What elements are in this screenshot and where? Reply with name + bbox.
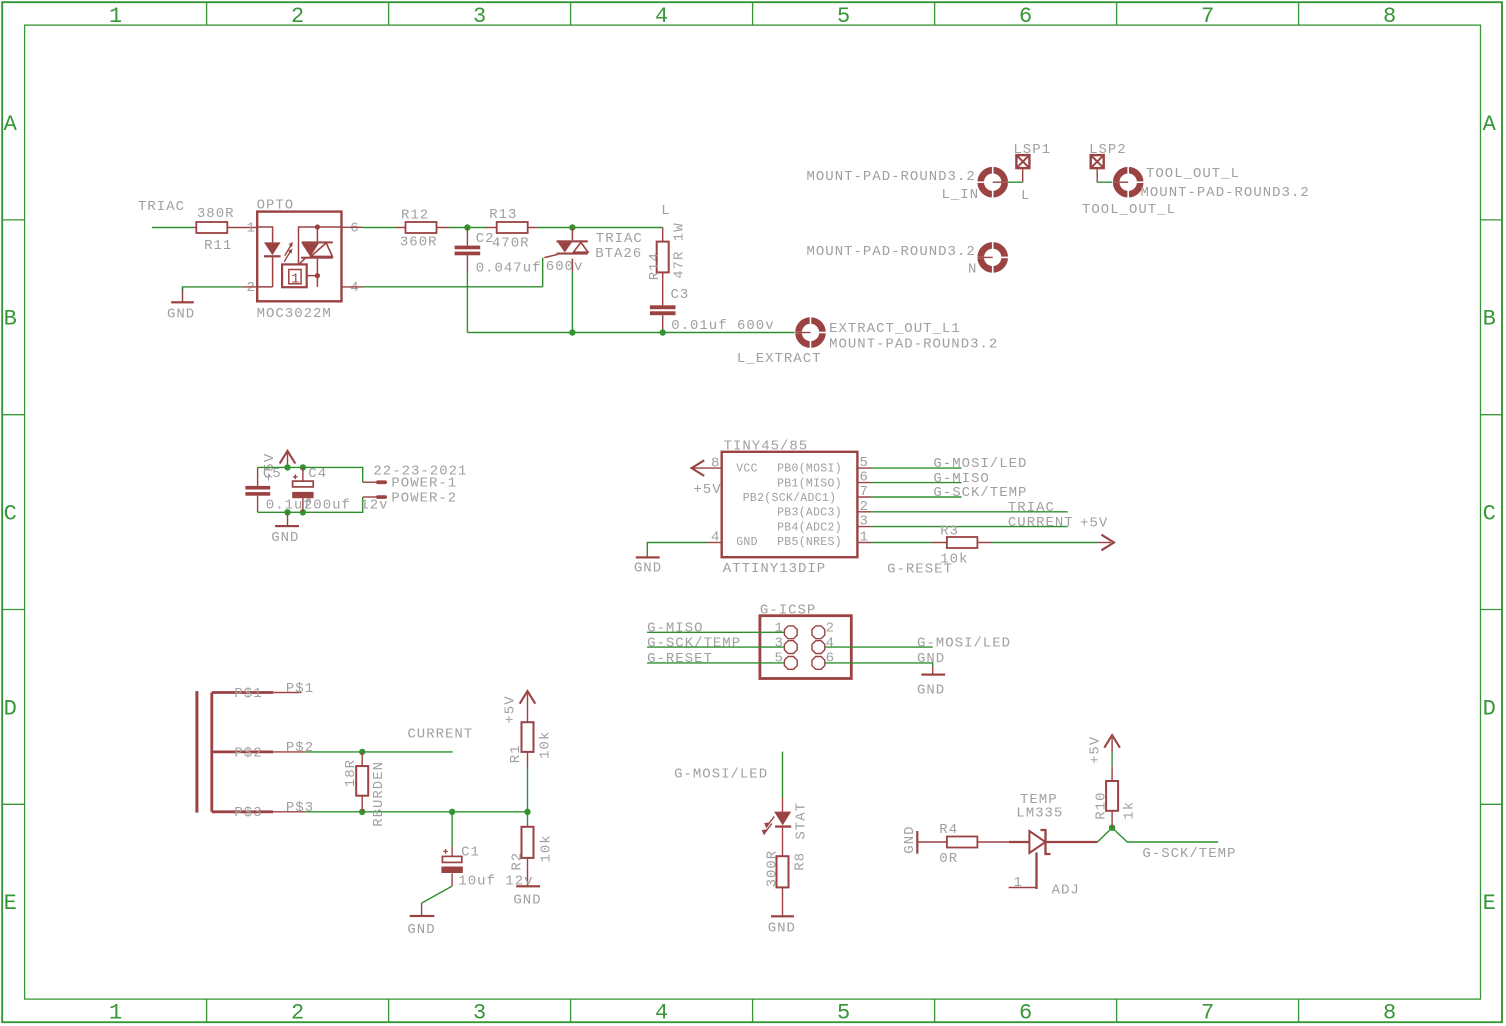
svg-text:POWER-2: POWER-2 — [391, 491, 457, 507]
wire net G-MOSI/LED (pin5) — [872, 467, 962, 469]
svg-text:10k: 10k — [538, 731, 554, 759]
svg-text:E: E — [4, 891, 17, 916]
wire power top rail — [258, 467, 363, 482]
wire net TRIAC (pin2) — [872, 511, 1068, 513]
junction node rail/triac — [569, 329, 575, 335]
pad L_EXTRACT (mount pad) — [795, 317, 827, 349]
pad TOOL_OUT (mount pad) — [1112, 166, 1144, 198]
svg-text:3: 3 — [473, 4, 486, 29]
resistor R8 — [777, 856, 789, 916]
resistor R2 — [522, 827, 534, 886]
svg-text:3: 3 — [775, 635, 784, 651]
wire GND to R4 — [918, 841, 947, 843]
resistor R10 — [1106, 767, 1118, 828]
svg-text:GND: GND — [513, 893, 541, 909]
svg-text:GND: GND — [167, 307, 195, 323]
svg-text:R13: R13 — [489, 207, 517, 223]
transformer core bar — [195, 691, 198, 813]
svg-text:D: D — [1483, 696, 1496, 721]
svg-text:47R 1W: 47R 1W — [672, 222, 688, 278]
svg-text:GND: GND — [768, 921, 796, 937]
supply +5V arrow (R10) — [1104, 735, 1120, 751]
transformer bracket and pins — [212, 693, 273, 812]
svg-text:C1: C1 — [461, 845, 480, 861]
svg-text:2: 2 — [291, 1001, 304, 1026]
wire R12 to node — [449, 227, 486, 229]
capacitor C1 (polarized) — [441, 847, 462, 887]
wire net CURRENT (pin3) — [872, 526, 1068, 528]
svg-text:LM335: LM335 — [1016, 806, 1063, 822]
wire opto pin6 out — [342, 226, 363, 228]
svg-text:4: 4 — [655, 4, 668, 29]
junction node triac top — [569, 224, 575, 230]
svg-text:GND: GND — [917, 683, 945, 699]
svg-text:7: 7 — [1201, 4, 1214, 29]
U1 pin 4 wire to GND — [707, 542, 722, 544]
svg-text:GND: GND — [634, 561, 662, 577]
resistor R13 — [486, 222, 538, 233]
svg-text:VCC: VCC — [736, 463, 758, 476]
svg-text:G-SCK/TEMP: G-SCK/TEMP — [933, 485, 1027, 501]
LM335 ADJ pin — [1035, 853, 1037, 890]
svg-text:6: 6 — [1019, 4, 1032, 29]
svg-text:PB4(ADC2): PB4(ADC2) — [777, 521, 842, 534]
wire LM335 to node (diagonal) — [1098, 828, 1113, 842]
svg-text:P$3: P$3 — [234, 805, 262, 821]
frame row ticks right — [1481, 220, 1503, 804]
capacitor C2 — [455, 228, 481, 273]
svg-text:A: A — [4, 112, 18, 137]
svg-text:E: E — [1483, 891, 1496, 916]
svg-text:1k: 1k — [1121, 801, 1137, 820]
svg-text:GND: GND — [917, 651, 945, 667]
IC U1 ATTINY13 box — [722, 452, 858, 557]
resistor R4 — [947, 837, 1009, 848]
svg-text:G-ICSP: G-ICSP — [760, 603, 816, 619]
wire net G-SCK/TEMP (pin7) — [872, 496, 962, 498]
svg-text:PB3(ADC3): PB3(ADC3) — [777, 507, 842, 520]
connector pin POWER-2 — [363, 495, 387, 499]
svg-text:PB5(NRES): PB5(NRES) — [777, 536, 842, 549]
ground GND (U1) — [636, 556, 660, 558]
svg-text:TRIAC: TRIAC — [1008, 500, 1055, 516]
svg-text:GND: GND — [902, 825, 918, 853]
frame column ticks top — [207, 2, 1299, 25]
ground GND (opto pin2) — [171, 288, 194, 303]
wire L_IN pad to LSP1 — [1008, 181, 1023, 183]
resistor R12 — [396, 222, 449, 233]
svg-text:8: 8 — [711, 455, 720, 471]
wire net GND (P$3 row) — [305, 811, 527, 813]
svg-text:7: 7 — [1201, 1001, 1214, 1026]
svg-text:CURRENT: CURRENT — [407, 726, 473, 742]
svg-text:2: 2 — [826, 621, 835, 637]
svg-text:B: B — [4, 307, 17, 332]
junction node C1 — [449, 809, 455, 815]
svg-text:TRIAC: TRIAC — [138, 199, 185, 215]
svg-text:1: 1 — [247, 221, 256, 237]
capacitor C3 — [650, 305, 676, 332]
pad N (mount pad) — [977, 242, 1009, 274]
svg-text:MOUNT-PAD-ROUND3.2: MOUNT-PAD-ROUND3.2 — [807, 244, 976, 260]
LED STAT — [774, 798, 791, 857]
svg-text:P$1: P$1 — [286, 681, 314, 697]
svg-text:4: 4 — [350, 280, 359, 296]
svg-text:G-SCK/TEMP: G-SCK/TEMP — [1142, 846, 1236, 862]
resistor RBURDEN — [356, 752, 368, 812]
svg-text:300R: 300R — [764, 850, 780, 888]
svg-text:PB1(MISO): PB1(MISO) — [777, 477, 842, 490]
solder jumper LSP1 — [1016, 155, 1029, 182]
svg-text:G-MOSI/LED: G-MOSI/LED — [917, 635, 1011, 651]
wire net G-RESET to ICSP pin5 — [647, 662, 784, 664]
svg-text:200uf 12v: 200uf 12v — [304, 497, 389, 513]
svg-text:G-MOSI/LED: G-MOSI/LED — [933, 456, 1027, 472]
svg-text:2: 2 — [291, 4, 304, 29]
svg-text:360R: 360R — [400, 234, 438, 250]
svg-text:L_IN: L_IN — [942, 187, 980, 203]
junction node R12/C2/R13 — [464, 224, 470, 230]
OPTO light arrows — [284, 242, 293, 262]
svg-text:OPTO: OPTO — [257, 198, 295, 214]
svg-text:470R: 470R — [492, 236, 530, 252]
wire power bottom rail — [258, 497, 363, 512]
ground GND (R2) — [516, 885, 540, 887]
svg-text:600v: 600v — [546, 259, 584, 275]
frame row ticks left — [2, 220, 24, 804]
svg-text:C2: C2 — [476, 231, 495, 247]
svg-text:3: 3 — [473, 1001, 486, 1026]
resistor R3 — [932, 537, 992, 548]
svg-text:P$2: P$2 — [286, 740, 314, 756]
svg-text:ATTINY13DIP: ATTINY13DIP — [723, 561, 826, 577]
svg-text:PB0(MOSI): PB0(MOSI) — [777, 463, 842, 476]
svg-text:C5: C5 — [263, 466, 282, 482]
svg-text:GND: GND — [407, 922, 435, 938]
svg-text:+5V: +5V — [1087, 736, 1103, 764]
svg-text:D: D — [4, 696, 17, 721]
svg-text:EXTRACT_OUT_L1: EXTRACT_OUT_L1 — [829, 321, 961, 337]
svg-text:10uf 12v: 10uf 12v — [458, 874, 533, 890]
U1 pin texts — [736, 463, 842, 550]
supply +5V arrow (VCC pin 8) — [692, 460, 722, 476]
svg-text:R14: R14 — [647, 252, 663, 280]
wire R10 to +5V — [1111, 752, 1113, 767]
svg-text:TOOL_OUT_L: TOOL_OUT_L — [1082, 202, 1176, 218]
svg-text:0.01uf 600v: 0.01uf 600v — [671, 318, 774, 334]
svg-text:TRIAC: TRIAC — [596, 231, 643, 247]
svg-text:1: 1 — [1014, 875, 1023, 891]
resistor R11 — [194, 222, 257, 233]
junction node GND/C5 — [284, 509, 290, 515]
OPTO detector chip box with 1 — [282, 264, 307, 287]
svg-text:6: 6 — [826, 651, 835, 667]
svg-text:1: 1 — [109, 4, 122, 29]
ground GND (R8) — [771, 915, 794, 917]
op-to coupler U OPTO MOC3022M box — [257, 212, 341, 302]
svg-text:B: B — [1483, 307, 1496, 332]
junction node R10/LM335 — [1109, 825, 1115, 831]
svg-text:R1: R1 — [508, 744, 524, 763]
svg-text:C4: C4 — [308, 466, 327, 482]
wire R1 to node — [527, 767, 529, 811]
wire net CURRENT (P$2) — [305, 751, 453, 753]
svg-text:R3: R3 — [940, 524, 959, 540]
svg-text:MOUNT-PAD-ROUND3.2: MOUNT-PAD-ROUND3.2 — [807, 169, 976, 185]
svg-text:R11: R11 — [204, 238, 232, 254]
svg-text:TINY45/85: TINY45/85 — [724, 439, 809, 455]
LED light arrows — [762, 817, 775, 836]
pin stub P$2 — [273, 751, 305, 753]
supply +5V arrow (power input) — [280, 451, 296, 468]
wire net TRIAC to R11 — [152, 227, 194, 229]
svg-text:P$2: P$2 — [234, 745, 262, 761]
ground GND (power) — [275, 512, 299, 527]
diode U2 LM335 — [1009, 830, 1098, 854]
svg-text:P$3: P$3 — [286, 800, 314, 816]
svg-text:+5V: +5V — [693, 482, 721, 498]
svg-text:2: 2 — [247, 280, 256, 296]
wire opto pin2 to GND — [242, 286, 257, 288]
wire C1 to GND (diagonal) — [422, 886, 453, 903]
frame column ticks bottom — [207, 999, 1299, 1022]
svg-text:0R: 0R — [939, 851, 958, 867]
svg-text:C3: C3 — [671, 287, 690, 303]
svg-text:G-MISO: G-MISO — [647, 621, 703, 637]
svg-text:5: 5 — [837, 4, 850, 29]
capacitor C4 (polarized) — [292, 467, 313, 512]
svg-text:10k: 10k — [539, 834, 555, 862]
solder jumper LSP2 — [1091, 155, 1104, 182]
svg-text:5: 5 — [775, 650, 784, 666]
svg-text:8: 8 — [1383, 1001, 1396, 1026]
svg-text:0.047uf: 0.047uf — [476, 261, 542, 277]
junction node C4 bottom — [300, 509, 306, 515]
svg-text:18R: 18R — [343, 759, 359, 787]
svg-text:R4: R4 — [939, 822, 958, 838]
svg-text:GND: GND — [736, 536, 758, 549]
svg-text:1: 1 — [291, 272, 299, 287]
svg-text:4: 4 — [826, 635, 835, 651]
svg-text:6: 6 — [1019, 1001, 1032, 1026]
pin stub P$3 — [273, 811, 305, 813]
OPTO internal LED — [257, 227, 280, 287]
svg-text:C: C — [1483, 502, 1496, 527]
ground GND (C1) — [410, 903, 435, 917]
svg-text:C: C — [4, 502, 17, 527]
svg-text:GND: GND — [271, 530, 299, 546]
svg-text:380R: 380R — [197, 206, 235, 222]
wire opto pin4 — [342, 286, 363, 288]
svg-text:22-23-2021: 22-23-2021 — [373, 464, 467, 480]
junction node +5V/C5 — [284, 464, 290, 470]
connector pin POWER-1 — [363, 480, 387, 484]
svg-text:+5V: +5V — [502, 695, 518, 723]
ground GND (rotated, R4) — [916, 831, 918, 854]
svg-text:L: L — [1021, 188, 1030, 204]
svg-text:R12: R12 — [401, 207, 429, 223]
junction node RBURDEN bottom — [359, 809, 365, 815]
supply +5V arrow (R1) — [520, 691, 536, 722]
svg-text:L_EXTRACT: L_EXTRACT — [737, 351, 822, 367]
svg-text:L: L — [661, 203, 670, 219]
svg-text:1: 1 — [109, 1001, 122, 1026]
svg-text:N: N — [968, 262, 977, 278]
svg-text:LSP1: LSP1 — [1013, 142, 1051, 158]
svg-text:R10: R10 — [1094, 791, 1110, 819]
wire net G-MOSI/LED to LED — [782, 752, 784, 798]
supply +5V arrow (right) — [1097, 535, 1114, 551]
wire triac gate — [363, 258, 543, 287]
svg-text:PB2(SCK/ADC1): PB2(SCK/ADC1) — [743, 492, 837, 505]
wire net G-MISO (pin6) — [872, 482, 962, 484]
triac Q BTA26 — [544, 228, 588, 272]
svg-text:A: A — [1483, 112, 1497, 137]
svg-text:TOOL_OUT_L: TOOL_OUT_L — [1146, 166, 1240, 182]
svg-text:MOUNT-PAD-ROUND3.2: MOUNT-PAD-ROUND3.2 — [1141, 185, 1310, 201]
ICSP pin circles — [784, 626, 824, 669]
pin stub P$1 — [273, 692, 301, 694]
svg-text:MOUNT-PAD-ROUND3.2: MOUNT-PAD-ROUND3.2 — [829, 337, 998, 353]
svg-text:G-RESET: G-RESET — [647, 651, 713, 667]
ground GND (ICSP) — [921, 666, 945, 676]
wire net G-SCK/TEMP — [1112, 828, 1218, 842]
svg-text:1: 1 — [775, 621, 784, 637]
svg-text:RBURDEN: RBURDEN — [371, 761, 387, 827]
svg-text:MOC3022M: MOC3022M — [257, 306, 332, 322]
wire LSP2 to TOOL pad — [1097, 181, 1113, 183]
wire node to R2 — [527, 812, 529, 827]
svg-text:R2: R2 — [509, 852, 525, 871]
OPTO internal triac — [299, 224, 342, 287]
svg-text:ADJ: ADJ — [1052, 883, 1080, 899]
svg-text:G-RESET: G-RESET — [887, 562, 953, 578]
junction node RBURDEN top — [359, 749, 365, 755]
svg-text:STAT: STAT — [794, 802, 810, 840]
wire net G-SCK/TEMP to ICSP pin3 — [647, 646, 784, 648]
svg-text:6: 6 — [350, 221, 359, 237]
capacitor C5 — [245, 467, 270, 512]
junction node rail/C3 — [660, 329, 666, 335]
svg-text:CURRENT: CURRENT — [1008, 515, 1074, 531]
resistor R1 — [522, 722, 534, 767]
wire R3 to +5V arrow — [992, 542, 1097, 544]
resistor R14 — [657, 228, 669, 306]
svg-text:8: 8 — [1383, 4, 1396, 29]
U1 right pin numbers — [860, 455, 869, 545]
svg-text:R8: R8 — [793, 852, 809, 871]
wire C2 down to rail — [466, 273, 468, 333]
junction node R1/R2 — [524, 809, 530, 815]
wire GND from ICSP pin6 — [825, 663, 932, 666]
wire bottom rail — [467, 332, 795, 334]
wire R13 to corner and R14 — [537, 227, 663, 229]
U1 right pin stubs — [857, 468, 872, 542]
svg-text:4: 4 — [655, 1001, 668, 1026]
wire node to C1 — [451, 812, 453, 847]
wire net G-MOSI/LED from ICSP pin4 — [825, 646, 932, 648]
svg-text:LSP2: LSP2 — [1089, 142, 1127, 158]
svg-text:G-SCK/TEMP: G-SCK/TEMP — [647, 635, 741, 651]
svg-text:G-MOSI/LED: G-MOSI/LED — [674, 767, 768, 783]
svg-text:+5V: +5V — [1080, 516, 1108, 532]
svg-text:5: 5 — [837, 1001, 850, 1026]
svg-text:P$1: P$1 — [234, 686, 262, 702]
svg-text:BTA26: BTA26 — [595, 246, 642, 262]
wire pin1 to R3 — [872, 542, 932, 544]
junction node C4 top — [300, 464, 306, 470]
wire net G-MISO to ICSP pin1 — [647, 631, 784, 633]
pad L_IN (mount pad) — [977, 166, 1009, 198]
wire triac MT1 down to rail — [571, 272, 573, 333]
header G-ICSP box — [760, 616, 851, 679]
